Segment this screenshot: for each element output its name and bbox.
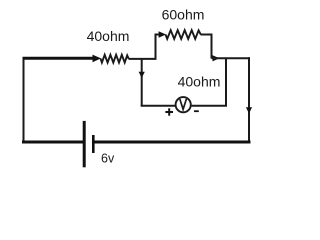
- wire: left vertical side: [23, 58, 25, 143]
- svg-text:6v: 6v: [101, 152, 115, 166]
- wire: voltmeter branch left drop from node A: [141, 58, 143, 106]
- arrowhead: current direction on main line after node B: [213, 55, 220, 61]
- voltmeter V1 circle: [176, 97, 191, 112]
- wire: bottom thick right segment: [94, 141, 251, 144]
- wire: R1 to node A: [129, 58, 157, 60]
- svg-text:60ohm: 60ohm: [162, 7, 205, 23]
- arrowhead: current direction into R2: [159, 31, 166, 37]
- svg-text:40ohm: 40ohm: [87, 28, 130, 44]
- wire: right vertical side: [248, 57, 250, 142]
- wire: right riser down to node B: [211, 34, 213, 59]
- wire: node A riser up to 60ohm branch: [156, 35, 160, 59]
- battery BT1 long plate: [83, 121, 86, 167]
- wire: R2 to right riser: [201, 34, 213, 36]
- resistor R1 40ohm zigzag: [101, 55, 129, 63]
- voltmeter V1 letter: [180, 99, 187, 109]
- wire: bottom thick left segment: [22, 141, 83, 144]
- wire: voltmeter loop right vertical up to main line: [225, 58, 227, 107]
- wire: node B to top-right corner: [212, 57, 251, 59]
- svg-text:40ohm: 40ohm: [178, 74, 221, 90]
- wire: top thick segment from top-left corner: [23, 57, 95, 60]
- arrowhead: current direction down voltmeter branch: [139, 72, 145, 78]
- wire: voltmeter loop bottom left: [141, 105, 175, 107]
- label polarity minus: [194, 110, 199, 112]
- arrowhead: current direction down right side: [246, 107, 252, 113]
- battery BT1 short plate: [92, 135, 95, 153]
- arrowhead: current direction into R1: [93, 55, 102, 63]
- resistor R2 60ohm zigzag: [166, 30, 201, 39]
- wire: voltmeter loop bottom right: [192, 105, 227, 107]
- label polarity plus: [165, 111, 173, 113]
